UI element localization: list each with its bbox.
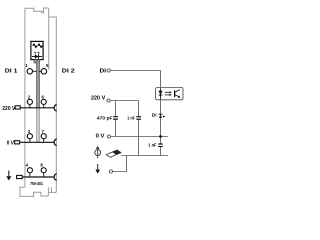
internal jumper channel wires [36,63,39,142]
pin number 1 [25,63,28,68]
terminal 5 clamp [39,69,46,75]
optocoupler phototransistor [175,90,180,98]
optocoupler U1 box [156,88,183,100]
220V jumper contact arc [54,105,57,112]
220 V label [2,106,15,112]
ground bus wire [121,155,168,157]
pin number 4 [26,162,29,167]
0 V label [7,140,14,146]
0V input terminal [107,135,110,138]
svg-text:DI 1: DI 1 [5,69,18,75]
pin number 7 [42,129,45,134]
svg-text:4: 4 [26,162,29,167]
0V power jumper wire [20,141,55,143]
functional earth symbol [95,146,101,158]
earth terminal marker [17,175,23,178]
pin number 2 [28,95,31,100]
svg-text:1 nF: 1 nF [127,116,135,121]
220 V label (schematic) [91,96,105,102]
module DIN-rail foot [20,187,56,196]
1 nF value label [127,116,135,121]
pin number 6 [42,95,45,100]
1 nF value label (C3) [148,143,156,148]
LED D3 glyph with through-wire [32,52,42,59]
capacitor C3 1nF plates [158,144,163,147]
DI 2 label [62,69,76,75]
svg-text:1: 1 [25,63,28,68]
DI 2 channel label [152,113,157,118]
capacitor C1 470pF plates [113,117,118,120]
svg-text:470 pF: 470 pF [97,116,113,121]
pin number 3 [28,129,31,134]
220V terminal marker [15,106,20,109]
svg-text:0 V: 0 V [96,133,105,139]
220V wire [110,100,138,102]
terminal 4 clamp [27,168,32,177]
optocoupler light arrows [165,91,172,96]
module earth arrow symbol [6,171,11,181]
svg-text:8: 8 [40,162,43,167]
wire DI to optocoupler [110,71,160,88]
bus contact stub under LED box [34,60,40,64]
svg-text:DI: DI [152,113,157,118]
earth power jumper wire [23,176,55,178]
LED D2 glyph [37,43,43,48]
earth terminal circle [109,170,112,173]
svg-text:220 V: 220 V [2,106,15,112]
terminal 1 clamp [27,69,37,75]
0 V label (schematic) [96,133,105,139]
DI input terminal [107,69,110,72]
DI 1 label [5,69,18,75]
DI 2 branch arrow [159,114,166,118]
capacitor C2 branch wires [138,101,140,156]
DI label [100,69,107,75]
earth arrow symbol (schematic) [95,164,100,174]
LED indicator box [31,41,43,59]
wire optocoupler down to 0V node [160,100,162,144]
terminal 7 clamp [41,134,46,143]
terminal 3 clamp [27,134,32,143]
220V power jumper wire [21,107,55,109]
470 pF value label [97,116,113,121]
svg-text:1 nF: 1 nF [148,143,156,148]
svg-text:750-401: 750-401 [30,181,43,187]
svg-text:220 V: 220 V [91,96,105,102]
pin number 8 [40,162,43,167]
0V wire [111,136,169,138]
pin number 5 [46,63,49,68]
svg-text:0 V: 0 V [7,140,14,146]
module body outline [25,8,56,192]
svg-text:DI: DI [100,69,107,75]
terminal 6 clamp [41,99,46,107]
terminal 8 clamp [41,168,46,177]
junction node [159,135,162,138]
optocoupler LED [159,88,163,99]
0V jumper contact arc [54,139,57,146]
750-401 type label [30,181,43,187]
DIN rail symbol [106,150,121,157]
capacitor C1 branch wires [115,101,117,137]
terminal 2 clamp [27,99,32,107]
220V input terminal [107,99,110,102]
0V terminal marker [15,141,20,144]
svg-text:DI 2: DI 2 [62,69,76,75]
earth jumper contact arc [54,174,57,181]
earth wire with terminal [113,156,127,172]
LED D1 glyph [32,43,38,48]
capacitor C2 1nF plates [136,117,141,120]
capacitor C3 lower wire [160,147,162,156]
